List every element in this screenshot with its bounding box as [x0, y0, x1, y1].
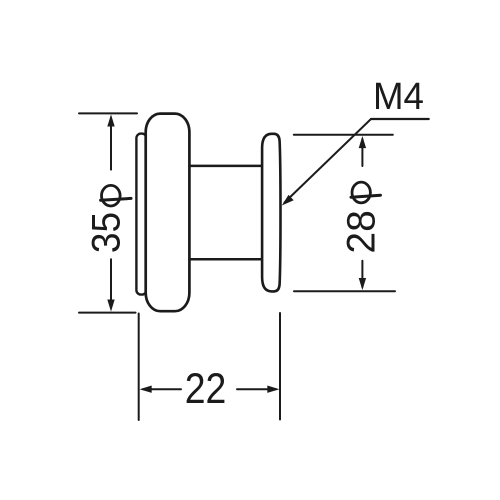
dim 28phi: top extension line	[294, 134, 393, 136]
dim 22: right arrowhead	[267, 386, 279, 393]
label 28 phi bar	[351, 195, 381, 197]
dim 22: dimension line right segment	[237, 388, 276, 390]
dim 35phi: up arrowhead	[107, 114, 114, 126]
svg-text:35: 35	[84, 212, 129, 253]
knob body	[146, 114, 190, 312]
label 35 phi bar	[101, 198, 131, 200]
label 35 phi bowl	[102, 185, 121, 206]
backplate strip	[136, 134, 146, 295]
dim 22: left arrowhead	[140, 386, 152, 393]
dim 28phi: dimension line lower segment	[361, 261, 363, 287]
dim 35phi: top extension line	[79, 112, 137, 114]
dim 28phi: dimension line upper segment	[361, 139, 363, 166]
dim 22: left extension line	[138, 314, 140, 421]
dim 35phi: bottom extension line	[79, 312, 136, 314]
dim 28phi: down arrowhead	[359, 278, 366, 290]
stem top line	[190, 165, 263, 168]
M4 leader underline	[371, 118, 429, 120]
dim 28phi: up arrowhead	[359, 136, 366, 148]
dim 35phi: down arrowhead	[107, 300, 114, 312]
dim 35phi: dimension line upper segment	[110, 118, 112, 170]
svg-text:22: 22	[185, 366, 227, 413]
svg-text:28: 28	[339, 210, 384, 253]
stem bottom line	[190, 258, 263, 261]
dim 35phi: dimension line lower segment	[110, 259, 112, 307]
dim 28phi: bottom extension line	[294, 290, 395, 292]
flange	[262, 134, 280, 292]
dim 22: dimension line left segment	[143, 388, 181, 390]
label 28 phi bowl	[352, 182, 370, 203]
dim 22: right extension line	[279, 313, 281, 420]
M4 leader diagonal	[285, 119, 372, 203]
M4 leader arrowhead	[282, 195, 294, 206]
svg-text:M4: M4	[373, 74, 424, 117]
